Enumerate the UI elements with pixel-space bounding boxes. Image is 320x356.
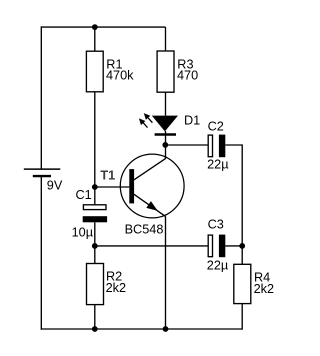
svg-text:10µ: 10µ [72,225,94,239]
svg-text:C3: C3 [208,218,224,232]
svg-text:T1: T1 [100,168,115,182]
svg-text:470: 470 [177,69,198,83]
svg-text:470k: 470k [106,69,134,83]
svg-text:D1: D1 [184,114,200,128]
svg-text:2k2: 2k2 [254,282,274,296]
svg-text:C1: C1 [76,188,92,202]
svg-text:22µ: 22µ [207,259,229,273]
svg-text:2k2: 2k2 [106,281,126,295]
svg-text:BC548: BC548 [125,222,164,236]
svg-text:C2: C2 [208,120,224,134]
svg-text:9V: 9V [47,179,63,193]
svg-text:22µ: 22µ [207,157,229,171]
